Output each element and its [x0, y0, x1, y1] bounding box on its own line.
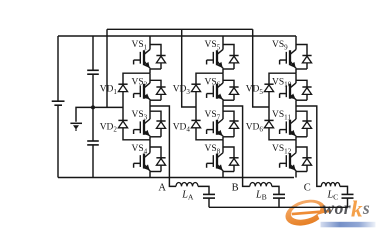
wire battery left vertical (lower)	[57, 105, 59, 177]
svg-text:VS12: VS12	[272, 144, 292, 155]
wire neutral top bus	[107, 28, 253, 30]
svg-text:VS2: VS2	[132, 77, 148, 88]
wire neutral horizontal to leg1 clamp	[93, 106, 123, 108]
svg-text:VD3: VD3	[173, 85, 191, 96]
svg-text:VD6: VD6	[246, 122, 264, 133]
capacitor C1 (upper DC-link)	[87, 70, 99, 74]
transistor VS10 (IGBT)	[272, 73, 312, 106]
wire clamp mid leg3	[268, 92, 270, 121]
diode VD5 (clamp upper)	[246, 84, 274, 96]
e-works watermark logo	[282, 195, 375, 230]
svg-text:VD2: VD2	[100, 122, 118, 133]
svg-text:VS3: VS3	[132, 110, 148, 121]
wire capacitor column upper	[92, 36, 94, 70]
battery E (DC source)	[52, 101, 65, 105]
wire C to filter cap	[340, 186, 348, 194]
svg-text:VS11: VS11	[272, 110, 291, 121]
inductor LB	[250, 182, 272, 201]
svg-text:VD5: VD5	[246, 85, 264, 96]
diode VD4 (clamp lower)	[173, 120, 201, 133]
wire clamp mid leg2	[195, 92, 197, 121]
wire capacitor column middle	[92, 74, 94, 141]
inductor LC	[321, 182, 340, 201]
wire clamp top connector leg3	[269, 73, 296, 84]
svg-text:VS7: VS7	[205, 110, 221, 121]
svg-text:VS8: VS8	[205, 144, 221, 155]
svg-text:C: C	[304, 182, 311, 193]
svg-text:VS6: VS6	[205, 77, 221, 88]
wire capacitor column lower	[92, 145, 94, 178]
wire neutral tap to leg3 clamp	[253, 29, 269, 107]
wire DC- bottom rail	[58, 177, 294, 179]
wire B to filter cap	[272, 186, 279, 194]
svg-text:VS5: VS5	[205, 40, 221, 51]
transistor VS8 (IGBT, leg 2 bottom)	[205, 140, 239, 178]
svg-text:LC: LC	[327, 189, 339, 201]
svg-text:LB: LB	[255, 189, 267, 201]
diode VD6 (clamp lower)	[246, 120, 274, 133]
wire clamp bottom connector leg2	[196, 128, 223, 140]
wire clamp top connector leg2	[196, 73, 223, 84]
capacitor CA (filter)	[203, 194, 215, 198]
wire clamp bottom connector leg3	[269, 128, 296, 140]
wire neutral tap to leg2 clamp	[182, 29, 196, 107]
svg-text:A: A	[158, 182, 166, 193]
transistor VS2 (IGBT)	[132, 73, 166, 106]
svg-text:VS10: VS10	[272, 77, 292, 88]
transistor VS5 (IGBT, leg 2 top)	[205, 36, 239, 73]
svg-text:VS9: VS9	[272, 40, 288, 51]
wire phase A output	[150, 106, 176, 186]
wire C cap to star bus	[347, 198, 349, 207]
wire B cap to star bus	[278, 198, 280, 207]
capacitor CB (filter)	[273, 194, 285, 198]
wire neutral riser x107	[106, 29, 108, 107]
wire clamp top connector leg1	[123, 73, 150, 84]
inductor LA	[176, 182, 198, 201]
svg-text:VS4: VS4	[132, 144, 148, 155]
transistor VS12 (IGBT, leg 3 bottom)	[272, 140, 312, 178]
wire battery left vertical (upper)	[57, 36, 59, 101]
wire DC+ top rail	[58, 35, 296, 37]
svg-text:LA: LA	[181, 189, 194, 201]
wire clamp bottom connector leg1	[123, 128, 150, 140]
wire phase B output	[223, 106, 250, 186]
transistor VS1 (IGBT, leg 1 top)	[132, 36, 166, 73]
ground symbol	[70, 123, 82, 131]
transistor VS4 (IGBT, leg 1 bottom)	[132, 140, 166, 178]
transistor VS7 (IGBT)	[205, 106, 239, 140]
wire A to filter cap	[198, 186, 209, 194]
transistor VS11 (IGBT)	[272, 106, 312, 140]
wire clamp mid leg1	[122, 92, 124, 121]
wire A cap to star bus	[208, 198, 210, 207]
diode VD3 (clamp upper)	[173, 84, 201, 96]
diode VD1 (clamp upper)	[100, 84, 128, 96]
capacitor CC (filter)	[342, 194, 354, 198]
node midpoint junction dot	[91, 105, 95, 109]
svg-text:VS1: VS1	[132, 40, 148, 51]
wire phase C output	[296, 106, 321, 186]
svg-text:B: B	[232, 182, 239, 193]
capacitor C2 (lower DC-link)	[87, 141, 99, 145]
svg-text:VD1: VD1	[100, 85, 118, 96]
wire star-point bus	[209, 206, 348, 208]
transistor VS9 (IGBT, leg 3 top)	[272, 36, 312, 73]
transistor VS3 (IGBT)	[132, 106, 166, 140]
diode VD2 (clamp lower)	[100, 120, 128, 133]
transistor VS6 (IGBT)	[205, 73, 239, 106]
wire neutral to ground	[76, 107, 93, 121]
svg-text:VD4: VD4	[173, 122, 191, 133]
